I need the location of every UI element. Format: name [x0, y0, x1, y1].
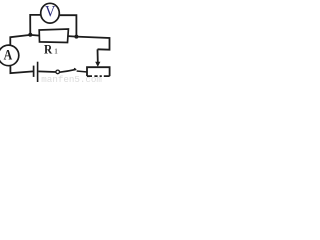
svg-text:A: A	[4, 46, 13, 63]
ammeter circle	[0, 45, 19, 66]
switch blade tip hook	[74, 68, 76, 69]
junction dot A	[28, 33, 32, 37]
switch S1 pivot circle	[56, 70, 60, 74]
svg-text:manfen5.com: manfen5.com	[41, 74, 102, 82]
switch blade (open)	[60, 69, 76, 72]
svg-text:1: 1	[54, 46, 58, 55]
battery long plate (right)	[37, 62, 39, 83]
junction dot B	[74, 35, 78, 39]
wire: battery to switch	[38, 70, 56, 73]
rheostat wiper arrow stem	[97, 49, 99, 62]
wire: ammeter down to battery row	[10, 66, 33, 74]
svg-text:V: V	[45, 4, 55, 21]
svg-text:R: R	[44, 43, 53, 56]
battery short plate (left)	[33, 66, 35, 77]
wire: R1 right lead, right rail down and jog left to wiper	[68, 36, 109, 50]
wire: switch to rheostat	[77, 71, 88, 72]
wire: ammeter branch up and across to R1	[10, 35, 39, 45]
rheostat R2 box (dashed bottom)	[87, 67, 110, 76]
rheostat wiper arrowhead	[95, 62, 100, 67]
wire: voltmeter left lead and drop to junction	[30, 15, 40, 35]
voltmeter U1 circle	[41, 3, 60, 23]
resistor R1 box	[39, 29, 68, 43]
wire: voltmeter right lead and drop to junction	[60, 15, 77, 36]
